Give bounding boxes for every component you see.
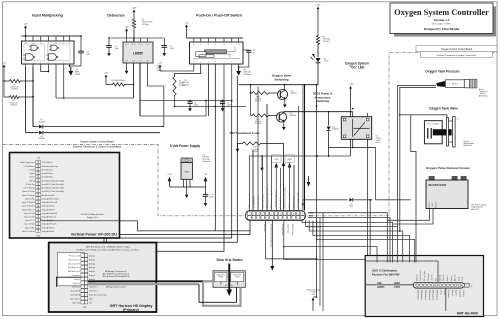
wire mux out 2 bbox=[32, 67, 34, 127]
svg-text:MHz 4000: MHz 4000 bbox=[471, 209, 479, 211]
wire bus 2 bbox=[316, 85, 318, 297]
svg-text:+12V: +12V bbox=[167, 174, 172, 176]
svg-text:On/Off: On/Off bbox=[235, 277, 240, 279]
wire sensor feed top bbox=[398, 85, 436, 226]
svg-text:13: 13 bbox=[215, 44, 217, 46]
stick grip arrow bbox=[228, 264, 230, 291]
wire pushon pin outputs down bbox=[175, 64, 201, 75]
svg-text:+12V Pwr: +12V Pwr bbox=[432, 274, 434, 281]
wire aux3 inner down segment bbox=[445, 289, 447, 312]
svg-text:7375: 7375 bbox=[394, 285, 400, 289]
power +12V debounce bbox=[132, 8, 137, 18]
svg-text:Trig: Trig bbox=[132, 61, 135, 63]
svg-text:MCHG: MCHG bbox=[452, 84, 458, 86]
svg-text:Oxygen Tank Pressure: Oxygen Tank Pressure bbox=[425, 70, 460, 74]
svg-text:GRT Horizon HS Display: GRT Horizon HS Display bbox=[110, 304, 154, 308]
wire R4 to LM555 bbox=[133, 30, 135, 42]
wires to GRT display bbox=[104, 221, 250, 243]
svg-text:Spare B: Spare B bbox=[455, 290, 457, 296]
wire LED down bbox=[317, 63, 319, 85]
wire aux3 inner down bbox=[445, 288, 447, 311]
svg-text:800 O2D2 Gnd: 800 O2D2 Gnd bbox=[291, 224, 293, 235]
wire supply branch right bbox=[266, 221, 317, 259]
wire valve loop bbox=[399, 114, 401, 116]
wire right pair down 1 bbox=[368, 148, 414, 285]
resistor R2 bbox=[4, 96, 8, 98]
ground C3 bbox=[163, 47, 167, 56]
gate C bbox=[26, 54, 34, 60]
svg-text:4: 4 bbox=[262, 214, 263, 216]
svg-text:10uF: 10uF bbox=[194, 105, 198, 107]
wire mux pin6 loop down bbox=[63, 67, 65, 98]
wire bundle right 4 bbox=[306, 221, 398, 263]
IC sub-block right bbox=[48, 44, 71, 61]
wire Q2 collector bbox=[283, 111, 285, 113]
title block shadow bbox=[394, 7, 496, 37]
wire PSI right bbox=[262, 144, 284, 211]
svg-text:Spare 1: Spare 1 bbox=[447, 275, 449, 281]
wire pushon top bus bbox=[187, 37, 244, 39]
power +5V mux bbox=[24, 24, 28, 36]
svg-text:Oxygen System Controller: Oxygen System Controller bbox=[394, 8, 489, 17]
IC U2 LM555 bbox=[123, 42, 153, 63]
IC U3 push-on push-off bbox=[190, 42, 244, 64]
svg-text:11: 11 bbox=[293, 214, 295, 216]
power GRD tap bbox=[285, 155, 294, 163]
ground Q1 emitter bbox=[283, 99, 287, 108]
svg-text:Regulator: Regulator bbox=[203, 160, 211, 163]
wire bundle right 5 bbox=[309, 221, 403, 263]
wire bundle right 6 bbox=[313, 221, 410, 263]
svg-text:Oxygen System Control Board: Oxygen System Control Board bbox=[441, 48, 473, 51]
resistor R11 base Q2 bbox=[251, 114, 271, 117]
wire bus thick bbox=[304, 85, 306, 211]
svg-text:MH EDS O2D2: MH EDS O2D2 bbox=[429, 183, 447, 187]
svg-text:Switching: Switching bbox=[316, 99, 329, 103]
capacitor C2 bbox=[108, 38, 110, 46]
svg-text:O2 Tank Vlv: O2 Tank Vlv bbox=[233, 274, 241, 276]
power +12V LED bbox=[316, 5, 321, 34]
svg-text:External Transducer & System C: External Transducer & System Connections bbox=[437, 54, 476, 57]
IC sub-block left bbox=[24, 44, 45, 61]
LED D3 bbox=[316, 58, 321, 62]
svg-text:6p: 6p bbox=[253, 52, 255, 54]
diode D4 1N4004 bbox=[327, 127, 331, 131]
diode D1 1N4148 bbox=[33, 126, 39, 128]
ground regulator bbox=[185, 187, 189, 198]
transistor Q2 2N4401 bbox=[277, 112, 287, 122]
svg-text:High) Valve: High) Valve bbox=[464, 145, 473, 147]
svg-text:5: 5 bbox=[267, 214, 268, 216]
svg-text:1N4148: 1N4148 bbox=[38, 121, 44, 123]
svg-text:O2D2 Power: O2D2 Power bbox=[287, 224, 290, 234]
resistor R6 bbox=[106, 84, 111, 86]
svg-text:Meter: Meter bbox=[349, 205, 354, 208]
resistor R10 base Q1 bbox=[251, 91, 271, 94]
svg-text:10: 10 bbox=[238, 44, 240, 46]
Vertical Power VP-200 DU unit bbox=[10, 153, 120, 239]
svg-text:Serial 1: Serial 1 bbox=[439, 290, 441, 296]
svg-text:15: 15 bbox=[200, 44, 202, 46]
wire mux top bus bbox=[22, 35, 82, 37]
svg-text:+12V Pwr: +12V Pwr bbox=[429, 201, 431, 208]
svg-text:+12V: +12V bbox=[349, 84, 354, 86]
svg-text:1/8 Watt: 1/8 Watt bbox=[182, 83, 189, 86]
capacitor C7 bypass bbox=[222, 101, 224, 102]
svg-text:GRT HS 4000: GRT HS 4000 bbox=[457, 311, 478, 315]
ground Q2 emitter bbox=[282, 122, 286, 131]
valve plunger bbox=[433, 129, 452, 135]
wire collector rail bbox=[239, 84, 318, 86]
svg-text:12: 12 bbox=[223, 44, 225, 46]
wire R9 to LED bbox=[317, 46, 319, 57]
svg-text:+12V Switched Power: +12V Switched Power bbox=[275, 190, 278, 208]
wire regulator rail bbox=[170, 186, 206, 188]
svg-text:16: 16 bbox=[193, 44, 195, 46]
svg-text:.01uF: .01uF bbox=[227, 105, 231, 107]
svg-text:Serial 2: Serial 2 bbox=[443, 290, 445, 296]
svg-text:O2 Valve Gnd: O2 Valve Gnd bbox=[281, 224, 283, 235]
capacitor C5 22uF bbox=[205, 187, 207, 195]
transistor Q1 2N4401 bbox=[278, 90, 288, 100]
svg-text:Gnd: Gnd bbox=[89, 302, 92, 304]
svg-text:Debounce: Debounce bbox=[107, 14, 124, 18]
wire relay coil loop bbox=[328, 112, 330, 126]
capacitor C6 bypass bbox=[189, 101, 191, 102]
power +5V R6 bbox=[104, 73, 108, 85]
svg-text:Designed by Matt Beadle: Designed by Matt Beadle bbox=[424, 27, 460, 31]
svg-text:Cal B: Cal B bbox=[462, 277, 464, 281]
svg-text:Pull-Down: Pull-Down bbox=[244, 74, 252, 76]
svg-text:Pulse Demand: Pulse Demand bbox=[420, 270, 422, 281]
wire LM555 pin3 out bbox=[139, 63, 141, 116]
svg-text:11: 11 bbox=[231, 44, 233, 46]
diode D5 to meter bbox=[349, 198, 352, 201]
svg-text:ANL Wiring: ANL Wiring bbox=[479, 94, 488, 97]
regulator U4 7805 bbox=[181, 158, 192, 163]
capacitor C4 pushon bbox=[243, 49, 249, 52]
wire switched power stick arrow bbox=[271, 221, 273, 267]
valve flange bbox=[446, 118, 448, 146]
title block bbox=[390, 3, 493, 34]
wire relay right stubs bbox=[367, 113, 369, 117]
GRT inner box bbox=[57, 252, 84, 285]
stick grip switch unit bbox=[213, 271, 245, 288]
svg-text:O2 Tank Valve: O2 Tank Valve bbox=[424, 271, 426, 281]
svg-text:+12V: +12V bbox=[274, 159, 279, 161]
power +5V debounce left bbox=[125, 27, 129, 38]
wire bundle right 7 bbox=[317, 221, 415, 263]
svg-text:Thrs: Thrs bbox=[139, 44, 142, 46]
wire GRT gray cable bbox=[88, 283, 199, 285]
svg-text:Backup: Backup bbox=[30, 177, 35, 179]
svg-text:3: 3 bbox=[258, 214, 259, 216]
svg-text:Gnd: Gnd bbox=[432, 203, 434, 206]
svg-text:1N4004: 1N4004 bbox=[333, 129, 339, 131]
wire GRT inner L bbox=[57, 277, 81, 287]
svg-text:Oxygen Tank Valve: Oxygen Tank Valve bbox=[429, 107, 458, 111]
wire relay bottom out bbox=[249, 156, 350, 211]
svg-text:5 Volt Power Supply: 5 Volt Power Supply bbox=[170, 144, 201, 148]
svg-text:10: 10 bbox=[288, 214, 290, 216]
wire bundle right 2 bbox=[308, 218, 390, 263]
wire rail y100.5 bbox=[140, 100, 232, 102]
svg-text:Disch: Disch bbox=[132, 44, 136, 46]
svg-text:All Page Key Functions: All Page Key Functions bbox=[106, 285, 126, 288]
GRT Horizon HS Display unit bbox=[49, 243, 157, 313]
svg-text:AUX Encode (5 of 2) - HS Audio: AUX Encode (5 of 2) - HS Audio System Ou… bbox=[86, 246, 130, 249]
svg-text:External Transducer & System C: External Transducer & System Connections bbox=[73, 146, 122, 149]
svg-text:13: 13 bbox=[302, 214, 304, 216]
wire regulator legs bbox=[183, 179, 185, 187]
svg-text:Push-On / Push-Off Switch: Push-On / Push-Off Switch bbox=[196, 14, 242, 18]
svg-text:2N4401: 2N4401 bbox=[291, 93, 297, 95]
svg-text:Input Multiplexing: Input Multiplexing bbox=[32, 14, 63, 18]
wire O2D2 down 1 bbox=[387, 209, 429, 221]
wire bundle right 1 bbox=[308, 213, 387, 262]
power +5V left rail bbox=[2, 63, 6, 75]
svg-text:O2 Sw B Return: O2 Sw B Return bbox=[257, 196, 260, 209]
svg-text:November 7 2008: November 7 2008 bbox=[432, 22, 451, 25]
pushon internal wires bbox=[193, 58, 240, 60]
svg-text:7805: 7805 bbox=[184, 172, 190, 174]
wire loop y116 bbox=[140, 115, 206, 117]
wire pushon pin7 down bbox=[238, 64, 240, 67]
valve V1 body bbox=[424, 121, 442, 144]
svg-text:(Primary): (Primary) bbox=[123, 308, 140, 312]
wire relay coil top rail bbox=[284, 111, 353, 113]
wire aux3 inner feed A bbox=[365, 261, 438, 282]
svg-text:Gnd: Gnd bbox=[125, 61, 128, 63]
connector J1 AUX EDS bbox=[246, 211, 306, 221]
svg-text:Oxygen System Control Board: Oxygen System Control Board bbox=[80, 141, 114, 144]
svg-text:1/2 Watt: 1/2 Watt bbox=[323, 40, 330, 43]
wire LM555 pin2 down bbox=[133, 63, 135, 98]
svg-text:800 dp Power/HS Standard 200: 800 dp Power/HS Standard 200 bbox=[103, 275, 130, 278]
power +5V pushon bbox=[185, 23, 189, 38]
off-page arrow pushon bbox=[238, 67, 240, 71]
diode D2 1N4148 bbox=[26, 132, 39, 134]
svg-text:+12V: +12V bbox=[316, 5, 321, 7]
wire LM555 pin4 right bbox=[148, 63, 164, 127]
svg-text:12: 12 bbox=[297, 214, 299, 216]
pushon internal bar bbox=[205, 50, 227, 53]
resistor R7 pull bbox=[173, 75, 176, 97]
wire GRT thick out bbox=[88, 280, 203, 282]
svg-text:Gnd: Gnd bbox=[436, 278, 438, 281]
GRT connector bbox=[81, 254, 84, 257]
wire pair right of connector bbox=[319, 218, 321, 306]
svg-text:PSI Transducer Load: PSI Transducer Load bbox=[230, 131, 260, 135]
svg-text:Factors For MH PSI: Factors For MH PSI bbox=[372, 272, 400, 276]
svg-text:On/Off: On/Off bbox=[219, 277, 224, 279]
svg-text:J2: J2 bbox=[471, 285, 473, 287]
wire relay to meter bbox=[376, 148, 411, 200]
wire aux3 inner verticals bbox=[376, 256, 378, 263]
wire lm555 top bus bbox=[111, 37, 164, 39]
svg-text:O2 Sw B: O2 Sw B bbox=[29, 169, 35, 171]
AUX3 connector bbox=[413, 282, 464, 288]
svg-text:Trigger Out: Trigger Out bbox=[87, 216, 98, 219]
wire aux3 inner feed B bbox=[365, 284, 413, 286]
wire mux out left bbox=[25, 67, 27, 133]
wires into connector top bbox=[252, 150, 254, 211]
svg-text:Switched Power (to) O2D2: Switched Power (to) O2D2 bbox=[283, 187, 286, 208]
svg-text:1N4148: 1N4148 bbox=[38, 138, 44, 140]
board boundary dash-dot bbox=[3, 53, 497, 216]
svg-text:Relay: Relay bbox=[376, 142, 381, 144]
wire pushon pin11 rail bbox=[231, 64, 233, 101]
svg-text:PSI Signal: PSI Signal bbox=[428, 273, 430, 281]
resistor R4 bbox=[132, 18, 135, 30]
svg-text:O2 Sw B: O2 Sw B bbox=[443, 275, 445, 281]
ground LM555 pin1 bbox=[126, 63, 128, 66]
svg-text:LM555: LM555 bbox=[133, 52, 143, 56]
svg-text:Demand: Demand bbox=[435, 202, 437, 208]
relay K1 bbox=[341, 117, 371, 140]
wire branch to AUX3 A bbox=[284, 221, 369, 260]
svg-text:+12V: +12V bbox=[132, 8, 137, 10]
svg-text:Spare 2: Spare 2 bbox=[451, 275, 453, 281]
pressure transducer PT1 bbox=[436, 81, 445, 87]
svg-text:14: 14 bbox=[208, 44, 210, 46]
svg-text:Version 1.1: Version 1.1 bbox=[433, 18, 449, 22]
wire to-meter branch bbox=[303, 199, 348, 201]
wire right pair down 2 bbox=[370, 200, 438, 282]
resistor R9 bbox=[316, 34, 319, 46]
svg-text:2: 2 bbox=[253, 214, 254, 216]
resistor R12 PSI load bbox=[241, 142, 262, 145]
wire black to stick bbox=[199, 284, 237, 302]
wire branch to AUX3 B bbox=[284, 247, 377, 262]
capacitor C1 mux bypass bbox=[80, 36, 82, 51]
svg-text:1/8 Watt: 1/8 Watt bbox=[142, 23, 149, 26]
wire mux bottom U loop bbox=[41, 67, 49, 72]
wire stick pins bbox=[220, 282, 222, 285]
wire mux out 3 bbox=[55, 67, 57, 98]
gate B bbox=[51, 45, 57, 50]
ground mid bbox=[261, 156, 263, 164]
wire cable to stick bbox=[203, 281, 241, 306]
wire pushon pin2 left bend bbox=[160, 64, 194, 71]
ground C2 bbox=[107, 47, 111, 56]
wire sensor feed bottom bbox=[400, 87, 436, 231]
ground PSI left bbox=[238, 143, 242, 145]
svg-text:3OPP:: 3OPP: bbox=[377, 285, 385, 289]
svg-text:R6 1/4W 2KOhm: R6 1/4W 2KOhm bbox=[111, 80, 125, 82]
svg-text:Vertical Power VP-200 DU: Vertical Power VP-200 DU bbox=[71, 233, 117, 237]
wire into connector extra bbox=[280, 168, 282, 211]
wire O2D2 down 2 bbox=[393, 209, 434, 225]
ground C5 bbox=[204, 196, 208, 206]
IC U1 quad gate mux bbox=[22, 41, 75, 64]
power +12V tap bbox=[272, 155, 281, 163]
svg-text:Ox: Ox bbox=[457, 118, 459, 120]
svg-text:VP-200 DU Annunciator: VP-200 DU Annunciator bbox=[80, 213, 103, 216]
wire pushon pin12 rail bbox=[223, 64, 225, 107]
pushon internal box A bbox=[196, 52, 206, 57]
svg-text:"On" LED: "On" LED bbox=[350, 66, 365, 70]
svg-text:AUX: AUX bbox=[309, 212, 314, 215]
wire rail y106.5 bbox=[175, 106, 247, 108]
svg-text:N/C - Oil Valve: N/C - Oil Valve bbox=[427, 124, 439, 126]
node junction left bbox=[32, 80, 34, 82]
svg-text:Stick Grip Switch: Stick Grip Switch bbox=[216, 258, 242, 262]
gate D bbox=[49, 54, 57, 60]
O2D2 unit MH EDS bbox=[429, 176, 435, 180]
wire left rail bbox=[3, 75, 5, 97]
resistor R1 bbox=[4, 80, 8, 82]
pushon internal box B bbox=[199, 55, 214, 58]
board label right box bbox=[416, 46, 497, 52]
svg-text:O2 Annunciator Return: O2 Annunciator Return bbox=[288, 190, 291, 208]
wire VP annunciator run bbox=[41, 221, 250, 231]
AUX 3 calibration unit bbox=[365, 256, 483, 317]
svg-text:Switching: Switching bbox=[274, 78, 288, 82]
svg-text:2N4401: 2N4401 bbox=[290, 115, 296, 117]
capacitor C3 bbox=[163, 38, 165, 46]
wire bundle right 3 bbox=[302, 221, 393, 263]
svg-text:Green: Green bbox=[324, 60, 329, 63]
svg-text:GRD: GRD bbox=[287, 159, 292, 161]
wire VP trigger out bbox=[40, 219, 42, 221]
wire Q1 collector bbox=[284, 85, 286, 91]
svg-text:(30 Amp Power Through +12V, GR: (30 Amp Power Through +12V, GRD, & 30 Am… bbox=[77, 249, 140, 252]
svg-text:GRGR: GRGR bbox=[75, 74, 81, 76]
gate A bbox=[31, 45, 37, 50]
off-page arrow mux bbox=[70, 67, 72, 71]
svg-text:Vcc: Vcc bbox=[125, 44, 128, 46]
svg-text:1/8 Watt: 1/8 Watt bbox=[10, 104, 17, 107]
wire base feed bbox=[250, 85, 252, 116]
svg-text:Oxygen Pulse Demand System: Oxygen Pulse Demand System bbox=[426, 166, 470, 170]
wire pushon drop to GRT right edge bbox=[156, 107, 224, 252]
svg-text:O2 Annunciator Out: O2 Annunciator Out bbox=[248, 192, 251, 208]
svg-text:1/8 Watt: 1/8 Watt bbox=[11, 88, 18, 91]
